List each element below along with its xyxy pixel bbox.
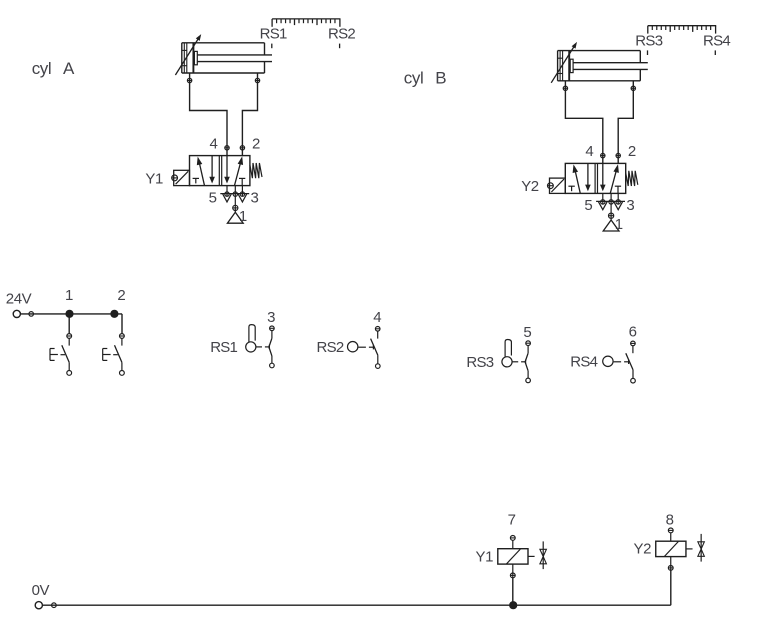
svg-text:2: 2 [117,287,125,304]
svg-text:RS4: RS4 [570,354,597,371]
svg-text:5: 5 [209,189,217,206]
svg-text:RS2: RS2 [317,339,344,356]
svg-text:A: A [63,59,75,78]
svg-text:8: 8 [666,511,674,528]
svg-text:RS1: RS1 [210,339,237,356]
svg-text:3: 3 [267,309,275,326]
svg-text:6: 6 [629,323,637,340]
svg-text:1: 1 [239,208,247,225]
svg-text:5: 5 [584,197,592,214]
svg-text:cyl: cyl [404,69,424,88]
svg-text:3: 3 [251,189,259,206]
svg-text:Y2: Y2 [634,541,652,558]
svg-text:Y1: Y1 [476,549,494,566]
svg-text:RS3: RS3 [635,32,662,49]
svg-text:RS3: RS3 [466,354,493,371]
svg-text:RS1: RS1 [260,25,287,42]
svg-text:Y1: Y1 [145,171,163,188]
svg-text:5: 5 [523,324,531,341]
svg-text:4: 4 [585,143,593,160]
svg-text:2: 2 [252,135,260,152]
svg-text:B: B [435,69,446,88]
svg-text:cyl: cyl [32,59,52,78]
svg-text:3: 3 [626,197,634,214]
svg-text:7: 7 [508,511,516,528]
svg-text:RS2: RS2 [328,25,355,42]
svg-text:Y2: Y2 [521,178,539,195]
svg-text:0V: 0V [32,582,50,599]
svg-text:2: 2 [628,143,636,160]
svg-text:1: 1 [615,216,623,233]
svg-text:4: 4 [210,135,218,152]
svg-text:4: 4 [373,309,381,326]
svg-text:24V: 24V [6,290,32,307]
svg-text:RS4: RS4 [703,32,730,49]
svg-text:1: 1 [65,287,73,304]
